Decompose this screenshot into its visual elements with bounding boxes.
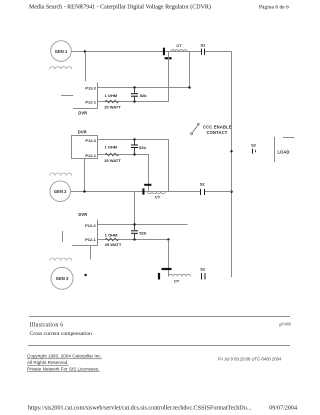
svg-text:CT: CT: [176, 43, 182, 48]
footer rule: [28, 345, 290, 347]
resistor R2 1 OHM 25 WATT: [104, 144, 121, 163]
svg-text:CCC ENABLE: CCC ENABLE: [203, 125, 232, 130]
current transformer CT (GEN 1): [163, 43, 188, 59]
svg-text:1 OHM: 1 OHM: [104, 93, 117, 98]
GEN 2 winding: [50, 173, 72, 176]
regulator DVR 2 box: [72, 130, 98, 159]
wire CT1 left secondary lead: [168, 52, 170, 102]
wire DVR3 P12-1 to CT3: [101, 239, 169, 241]
svg-text:52b: 52b: [140, 93, 147, 98]
GEN 1 winding: [50, 67, 72, 70]
node DVR2 P12-2 / 52b: [133, 138, 135, 140]
resistor R3 1 OHM 25 WATT: [105, 233, 122, 247]
pin P12-1 stub DVR2: [98, 154, 101, 156]
current transformer CT (GEN 2): [142, 184, 165, 200]
node CT1 right lead joint: [188, 86, 190, 88]
current transformer CT (GEN 3): [158, 240, 191, 284]
contact 52b (DVR2): [131, 140, 146, 155]
wire CT1 right secondary lead: [189, 52, 191, 88]
svg-text:09/07/2004: 09/07/2004: [269, 406, 297, 412]
wire DVR2 P12-1 to CT2 left lead: [101, 155, 149, 192]
node load tap: [230, 150, 232, 152]
svg-text:S2: S2: [251, 142, 257, 147]
svg-text:1 OHM: 1 OHM: [104, 144, 117, 149]
pin P12-2 stub DVR3: [98, 224, 101, 226]
svg-text:GEN 2: GEN 2: [54, 189, 67, 194]
svg-text:https://sis2001.cat.com/sisweb: https://sis2001.cat.com/sisweb/servlet/c…: [28, 406, 252, 412]
pin P12-2 stub DVR1: [98, 87, 101, 89]
regulator DVR 1 box: [73, 83, 98, 116]
node DVR3 P12-2 / 52b: [133, 223, 135, 225]
node DVR1 P12-2 / 52b: [133, 86, 135, 88]
node DVR2 P12-1 / 52b: [133, 153, 135, 155]
svg-text:LOAD: LOAD: [278, 149, 290, 154]
svg-text:CT: CT: [155, 195, 161, 200]
svg-text:DVR: DVR: [78, 130, 87, 135]
contact S2 (GEN 2 breaker): [200, 182, 206, 195]
wire DVR3 bottom stub: [90, 246, 92, 260]
wire GEN1 output bus: [71, 51, 231, 53]
svg-text:Private Network For SIS Licens: Private Network For SIS Licensees.: [27, 366, 100, 371]
svg-text:Media Search - RENR7941 - Cate: Media Search - RENR7941 - Caterpillar Di…: [29, 3, 211, 10]
svg-text:Copyright 1993, 2004 Caterpill: Copyright 1993, 2004 Caterpillar Inc.: [27, 354, 102, 359]
contact 52b (DVR3): [131, 225, 147, 240]
svg-text:52b: 52b: [139, 145, 146, 150]
svg-text:1 OHM: 1 OHM: [105, 233, 118, 238]
svg-text:GEN 1: GEN 1: [55, 49, 68, 54]
wire DVR1 P12-1 to CT1: [101, 101, 169, 103]
svg-text:CONTACT: CONTACT: [207, 130, 228, 135]
node CT3 lead joint: [167, 238, 169, 240]
wire GEN1 tap down to DVR1: [85, 52, 87, 82]
svg-text:P12-1: P12-1: [85, 153, 96, 158]
svg-text:52b: 52b: [139, 231, 146, 236]
wire DVR1 P12-2 to CT1: [101, 87, 190, 89]
svg-text:P12-2: P12-2: [85, 223, 96, 228]
wire right bus vertical: [231, 52, 233, 278]
svg-text:Página 6 de 6: Página 6 de 6: [259, 5, 289, 11]
caption rule: [29, 316, 290, 318]
wire DVR3 left fragment: [62, 231, 64, 242]
CCC enable contact symbol: [191, 123, 232, 135]
svg-text:DVR: DVR: [78, 212, 87, 217]
regulator DVR 3 box: [72, 212, 98, 245]
generator GEN 1: [51, 41, 72, 62]
contact S2 (GEN 3 breaker): [200, 267, 206, 280]
svg-text:P12-1: P12-1: [85, 99, 96, 104]
pin P12-2 stub DVR2: [98, 139, 101, 141]
svg-text:P12-2: P12-2: [85, 138, 96, 143]
contact 52b (DVR1): [131, 88, 147, 102]
wire DVR1 stub left: [61, 95, 73, 97]
wire GEN2 bus down to DVR3: [134, 192, 136, 225]
svg-text:S2: S2: [200, 267, 206, 272]
svg-text:S2: S2: [200, 182, 206, 187]
svg-text:Illustration 6: Illustration 6: [30, 323, 64, 329]
node GEN1 tap: [84, 50, 86, 52]
svg-text:CT: CT: [174, 279, 180, 284]
svg-text:All Rights Reserved.: All Rights Reserved.: [27, 360, 69, 365]
svg-text:25 WATT: 25 WATT: [105, 242, 122, 247]
node DVR1 P12-1 / 52b: [133, 100, 135, 102]
node GEN2 bus junction: [230, 191, 232, 193]
svg-text:Fri Jul 9 09:29:06 UTC-0400 20: Fri Jul 9 09:29:06 UTC-0400 2004: [218, 356, 282, 361]
svg-text:25 WATT: 25 WATT: [104, 105, 121, 110]
generator GEN 2: [50, 181, 71, 202]
load LOAD: [275, 137, 295, 162]
GEN 3 winding: [50, 258, 72, 261]
node DVR3 P12-1 / 52b: [133, 238, 135, 240]
wire DVR2 P12-2 to CT2 right lead: [101, 140, 169, 192]
svg-text:S2: S2: [200, 42, 206, 47]
svg-text:g01080: g01080: [279, 322, 291, 327]
svg-text:GEN 3: GEN 3: [56, 276, 69, 281]
wire DVR3 P12-2 (fades): [101, 224, 188, 226]
svg-text:25 WATT: 25 WATT: [104, 158, 121, 163]
wire GEN2 output bus: [71, 191, 232, 193]
generator GEN 3: [51, 267, 73, 289]
svg-text:P12-1: P12-1: [85, 237, 96, 242]
contact S2 (load feeder): [251, 142, 257, 153]
wire DVR2 down to GEN2 bus: [84, 159, 86, 192]
pin P12-1 stub DVR3: [98, 239, 101, 241]
svg-text:DVR: DVR: [78, 111, 87, 116]
node GEN2 tap: [83, 190, 85, 192]
svg-text:P12-2: P12-2: [85, 85, 96, 90]
svg-text:Cross current compensation: Cross current compensation: [30, 331, 93, 337]
pin P12-1 stub DVR1: [98, 101, 101, 103]
node GEN3 tap: [84, 274, 86, 276]
contact S2 (GEN 1 breaker): [200, 42, 206, 55]
resistor R1 1 OHM 25 WATT: [104, 93, 121, 109]
